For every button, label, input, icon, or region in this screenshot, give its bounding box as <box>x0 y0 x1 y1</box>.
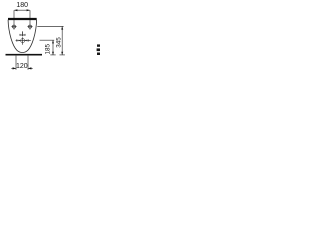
fixing hole left <box>11 25 16 28</box>
extension line left hole <box>13 10 15 29</box>
fixing hole right <box>27 25 32 28</box>
extension tick 185 bottom <box>50 54 55 56</box>
extension line right hole <box>29 10 31 29</box>
cropped element bar 1 <box>97 44 100 46</box>
wall mounting line <box>6 54 43 56</box>
water inlet symbol <box>20 31 26 36</box>
cropped element bar 3 <box>97 53 100 56</box>
drain centerline <box>16 39 31 41</box>
drain arrow left <box>19 40 21 42</box>
bidet top edge <box>8 18 37 20</box>
svg-text:180: 180 <box>16 2 28 9</box>
svg-text:185: 185 <box>45 43 52 54</box>
cropped element bar 2 <box>97 48 100 51</box>
drain vertical centerline <box>22 37 24 45</box>
dimension line 120 left segment <box>11 67 16 69</box>
extension tick 345 bottom <box>60 54 65 56</box>
dimension line 120 right segment <box>28 67 33 69</box>
dimension line 180 <box>14 9 29 11</box>
svg-text:120: 120 <box>16 63 28 70</box>
arrowhead 180 left <box>14 9 17 11</box>
extension line 120 left <box>15 56 17 70</box>
drain cross tick right <box>27 39 29 42</box>
dimension line 345 <box>61 26 63 55</box>
drain arrow right <box>25 40 27 42</box>
extension line hole height <box>37 25 63 27</box>
extension line drain height <box>40 39 55 41</box>
svg-text:345: 345 <box>56 37 63 48</box>
arrowhead 185 bottom <box>52 52 54 55</box>
arrowhead 345 bottom <box>61 52 63 55</box>
drain hole circle <box>21 39 25 43</box>
drain cross tick left <box>16 39 18 42</box>
dimension line 185 <box>52 40 54 55</box>
arrowhead 120 right <box>28 67 31 69</box>
extension line 120 right <box>27 56 29 70</box>
arrowhead 345 top <box>61 26 63 29</box>
bidet bowl outline <box>8 20 36 53</box>
arrowhead 120 left <box>13 67 16 69</box>
arrowhead 180 right <box>27 9 30 11</box>
arrowhead 185 top <box>52 40 54 43</box>
